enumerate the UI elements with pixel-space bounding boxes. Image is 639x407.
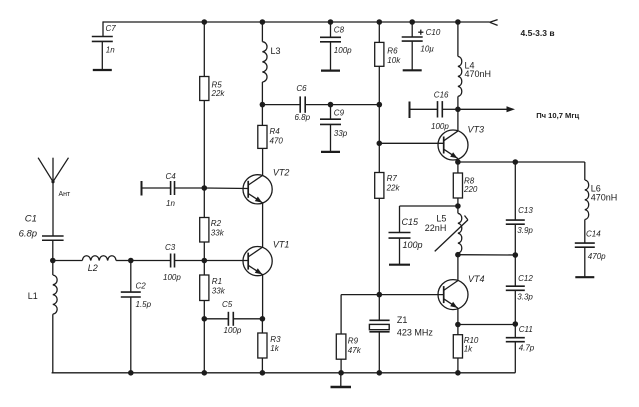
svg-text:VT2: VT2 (273, 168, 290, 178)
wire node to VT4 collector (457, 255, 459, 281)
svg-text:R3: R3 (270, 335, 281, 344)
wire node to Z1 (378, 295, 380, 321)
node dot rail/R9 (338, 370, 344, 376)
svg-text:423 MHz: 423 MHz (397, 328, 434, 338)
svg-text:470p: 470p (588, 252, 606, 261)
wire top supply rail (103, 21, 490, 23)
wire C6 to R6 column (305, 104, 379, 106)
terminal bar C16 (409, 102, 411, 119)
power connector symbol (490, 20, 498, 23)
wire node to VT2 base (204, 187, 248, 190)
resistor R2 (200, 218, 209, 243)
inductor L5 variable (458, 213, 462, 253)
capacitor C14 (575, 242, 595, 244)
capacitor C6 (299, 96, 301, 112)
svg-text:R4: R4 (270, 127, 281, 136)
svg-text:C13: C13 (518, 206, 533, 215)
wire C12 to node (514, 290, 516, 324)
svg-text:C16: C16 (434, 90, 449, 99)
capacitor C8 (320, 36, 341, 38)
svg-text:4.7p: 4.7p (519, 344, 535, 353)
wire R9 top lead (340, 295, 342, 334)
svg-text:VT1: VT1 (273, 240, 290, 250)
wire node to VT3 collector (457, 109, 459, 131)
wire C3 to node (175, 260, 205, 262)
svg-text:33k: 33k (212, 286, 226, 295)
wire rail to L4 (457, 22, 459, 56)
wire C7 top lead (102, 21, 104, 36)
node dot C16/out (455, 107, 461, 113)
svg-text:470nH: 470nH (591, 192, 618, 202)
node dot C5/R3 (260, 316, 266, 322)
wire L2 to node (116, 260, 131, 262)
svg-text:C6: C6 (296, 84, 307, 93)
plus sign C10 (418, 31, 423, 33)
wire node to C5 (204, 318, 228, 320)
svg-text:C14: C14 (586, 230, 601, 239)
wire C10 to terminal (411, 41, 413, 70)
wire rail to L3 (261, 22, 263, 42)
wire base node to R7 (378, 143, 380, 172)
node dot VT4 emitter (455, 322, 461, 328)
wire node to C9 (330, 105, 332, 120)
node dot R6 bottom (377, 102, 383, 108)
svg-text:1.5p: 1.5p (136, 300, 152, 309)
wire to L6 (584, 162, 586, 180)
node dot rail/R6 (377, 19, 383, 25)
wire L5 to node (457, 253, 459, 255)
wire R7 to VT4 base node (378, 198, 380, 294)
ground terminal C15 (389, 264, 410, 266)
wire node to C3 (131, 260, 171, 262)
node dot R1/C5 (202, 316, 208, 322)
wire node to L5 (457, 206, 459, 213)
node dot R8/C15/L5 (455, 203, 461, 209)
svg-text:Ант: Ант (59, 191, 72, 198)
inductor L6 (585, 180, 589, 220)
svg-text:C8: C8 (334, 26, 345, 35)
wire L5 node row (458, 254, 515, 256)
svg-text:22k: 22k (386, 183, 401, 192)
svg-text:1n: 1n (166, 199, 175, 208)
svg-text:L1: L1 (28, 291, 38, 301)
ground terminal C10 (403, 69, 422, 71)
wire C14 to terminal (584, 247, 586, 277)
capacitor C4 (170, 181, 172, 195)
wire R4 to VT2 collector (262, 148, 264, 175)
terminal bar C4 (141, 181, 143, 196)
svg-text:C3: C3 (165, 243, 176, 252)
wire L1 to ground rail (52, 314, 54, 373)
capacitor C16 (437, 101, 439, 117)
wire C2 to ground rail (130, 297, 132, 373)
wire L6 to C14 (584, 220, 586, 244)
svg-text:VT3: VT3 (468, 124, 485, 134)
capacitor C5 (227, 312, 229, 326)
svg-text:3.3p: 3.3p (517, 293, 533, 302)
wire terminal to C4 (142, 187, 171, 189)
svg-text:VT4: VT4 (468, 274, 485, 284)
node dot rail/R3 (260, 370, 266, 376)
wire C8 to terminal (330, 42, 332, 71)
node dot L5/C13-C12 (455, 252, 461, 258)
ground terminal C7 (93, 69, 112, 71)
capacitor C9 (320, 118, 341, 120)
wire VT4 emitter to node (457, 308, 459, 324)
capacitor C15 (389, 232, 411, 234)
capacitor C3 (170, 254, 172, 268)
node dot rail/C2 (128, 370, 134, 376)
wire rail to R6 (378, 22, 380, 42)
node dot VT3 emitter (455, 159, 461, 165)
crystal Z1 (369, 319, 389, 321)
ground terminal C8 (321, 69, 340, 71)
wire output arrow (458, 108, 508, 110)
capacitor C11 (506, 337, 525, 339)
node dot C1/L2/L1 (50, 258, 56, 264)
svg-text:R9: R9 (348, 337, 359, 346)
wire C13 to node (514, 224, 516, 255)
svg-text:100p: 100p (431, 122, 449, 131)
svg-text:1k: 1k (464, 345, 473, 354)
wire VT3 emitter to node (457, 159, 459, 162)
wire VT3 emitter row (458, 161, 585, 163)
svg-text:C7: C7 (106, 24, 117, 33)
wire C11 to ground rail (514, 342, 516, 373)
wire VT3 base (379, 142, 443, 144)
capacitor C2 (121, 291, 141, 293)
transistor VT2 (243, 175, 272, 204)
resistor R6 (375, 42, 384, 66)
node dot C13 top (513, 159, 519, 165)
wire terminal to C16 (410, 108, 438, 110)
wire L4 to C16 node (457, 96, 459, 109)
node dot VT3 base tap (377, 141, 383, 147)
svg-text:R6: R6 (387, 47, 398, 56)
wire C7 bottom lead (101, 41, 103, 70)
wire ground rail (52, 372, 516, 374)
svg-text:C2: C2 (136, 282, 147, 291)
svg-text:C5: C5 (222, 300, 233, 309)
wire R2 to node (203, 242, 205, 261)
wire R10 to ground rail (457, 358, 459, 373)
wire R8 to node (457, 198, 459, 206)
wire antenna to C1 (52, 182, 54, 236)
wire C5 node to ground rail (203, 319, 205, 373)
svg-text:C15: C15 (402, 217, 420, 227)
wire VT1 emitter to node (262, 275, 264, 319)
wire C15 to terminal (399, 238, 401, 265)
resistor R10 (453, 335, 462, 358)
svg-text:10µ: 10µ (420, 44, 434, 53)
inductor L3 (262, 42, 267, 82)
svg-text:C12: C12 (518, 274, 533, 283)
capacitor C1 (42, 235, 64, 237)
node dot C9 tap (328, 102, 334, 108)
inductor L1 (52, 261, 54, 276)
svg-text:100p: 100p (224, 326, 242, 335)
node dot L2/C2/C3 (128, 258, 134, 264)
wire rail to C10 (411, 22, 413, 37)
wire VT4 base row (341, 294, 444, 296)
capacitor C2 top lead (130, 261, 132, 293)
svg-text:C11: C11 (519, 325, 533, 334)
svg-text:6.8p: 6.8p (295, 113, 311, 122)
capacitor C12 (506, 285, 525, 287)
node dot rail/R1col (202, 370, 208, 376)
wire R3 to ground rail (261, 358, 263, 373)
resistor R4 (258, 125, 267, 148)
node dot C3/R2/R1 (202, 258, 208, 264)
wire node to C12 (514, 255, 516, 286)
wire node to R1 (203, 261, 205, 276)
capacitor C13 (506, 219, 525, 221)
node dot rail/C8 (328, 19, 334, 25)
resistor R9 (336, 334, 346, 359)
resistor R1 (200, 275, 209, 301)
wire R9 to ground rail (340, 359, 342, 373)
wire node to C13 (514, 162, 516, 220)
svg-text:33p: 33p (334, 129, 348, 138)
resistor R3 (258, 333, 267, 358)
svg-text:C9: C9 (334, 109, 345, 118)
wire C5 to node (233, 318, 262, 320)
resistor R8 (453, 173, 462, 198)
wire R5 to base node (203, 101, 205, 189)
wire R6 to node (378, 66, 380, 104)
wire R8 node to C15 (400, 205, 458, 207)
wire rail to C8 (330, 22, 332, 37)
wire node to R3 (261, 319, 263, 333)
wire L3 node to C6 (262, 104, 300, 106)
svg-text:L3: L3 (271, 46, 281, 56)
ground terminal C14 (575, 276, 594, 278)
svg-text:C10: C10 (426, 28, 441, 37)
wire VT4 emitter row (458, 324, 515, 326)
wire rail to R5 (203, 22, 205, 77)
wire node to C11 (514, 324, 516, 338)
inductor L2 (82, 256, 116, 261)
node dot C13/C12 (513, 252, 519, 258)
node dot rail/C10 (409, 19, 415, 25)
inductor L4 (458, 56, 462, 96)
wire node to L2 (53, 260, 83, 262)
node dot rail/R10 (455, 370, 461, 376)
svg-text:6.8p: 6.8p (19, 229, 37, 240)
svg-text:4.5-3.3 в: 4.5-3.3 в (521, 28, 555, 38)
wire C1 to node (52, 240, 54, 260)
wire VT2 emitter to VT1 collector (262, 203, 264, 247)
wire node to R4 (261, 105, 263, 126)
svg-text:470: 470 (270, 136, 284, 145)
svg-text:R7: R7 (387, 174, 398, 183)
transistor VT4 (438, 280, 468, 310)
node dot C4/base VT2 (202, 185, 208, 191)
svg-text:Z1: Z1 (397, 315, 408, 325)
wire R1 to C5 node (203, 301, 205, 319)
wire node to R10 (457, 325, 459, 335)
svg-text:220: 220 (463, 185, 478, 194)
svg-text:470nH: 470nH (465, 69, 492, 79)
capacitor C10 polarized (402, 36, 423, 38)
svg-text:100p: 100p (163, 273, 181, 282)
svg-text:1k: 1k (270, 344, 279, 353)
svg-text:33k: 33k (211, 228, 225, 237)
node dot L3/C6/R4 (260, 102, 266, 108)
wire C16 to node (442, 108, 458, 110)
capacitor C7 (92, 36, 113, 38)
wire node to R8 (457, 162, 459, 173)
svg-text:R2: R2 (211, 219, 222, 228)
transistor VT3 (438, 130, 468, 160)
svg-text:100p: 100p (403, 240, 423, 250)
svg-text:3.9p: 3.9p (517, 226, 533, 235)
svg-text:22k: 22k (211, 89, 226, 98)
svg-text:1n: 1n (106, 46, 115, 55)
antenna (52, 158, 54, 182)
svg-text:47k: 47k (348, 346, 362, 355)
svg-text:22nH: 22nH (425, 223, 447, 233)
node dot VT4 base/Z1 (377, 292, 383, 298)
wire C15 top lead (399, 206, 401, 233)
wire C4 to node (175, 187, 205, 189)
svg-text:C1: C1 (25, 214, 37, 225)
svg-text:C4: C4 (166, 172, 177, 181)
svg-text:100p: 100p (334, 46, 352, 55)
node dot rail/L4 (455, 19, 461, 25)
transistor VT1 (243, 247, 272, 276)
ground terminal C9 (321, 151, 340, 153)
wire node to R2 (203, 188, 205, 218)
node dot rail/L3 (260, 19, 266, 25)
wire node to VT3 base node (378, 105, 380, 144)
ground symbol (340, 373, 342, 387)
wire C9 to terminal (330, 124, 332, 151)
svg-text:L2: L2 (88, 263, 98, 273)
svg-text:Пч 10,7 Мгц: Пч 10,7 Мгц (536, 111, 579, 120)
node dot C12/C11 (513, 321, 519, 327)
resistor R7 (375, 173, 384, 199)
svg-text:R1: R1 (212, 277, 222, 286)
svg-text:10k: 10k (387, 56, 401, 65)
node dot rail/R5 (202, 19, 208, 25)
resistor R5 (200, 77, 209, 101)
node dot rail/Z1 (377, 370, 383, 376)
wire node to VT1 base (204, 260, 248, 262)
wire L3 to node (261, 82, 263, 105)
wire Z1 to ground rail (378, 332, 380, 373)
